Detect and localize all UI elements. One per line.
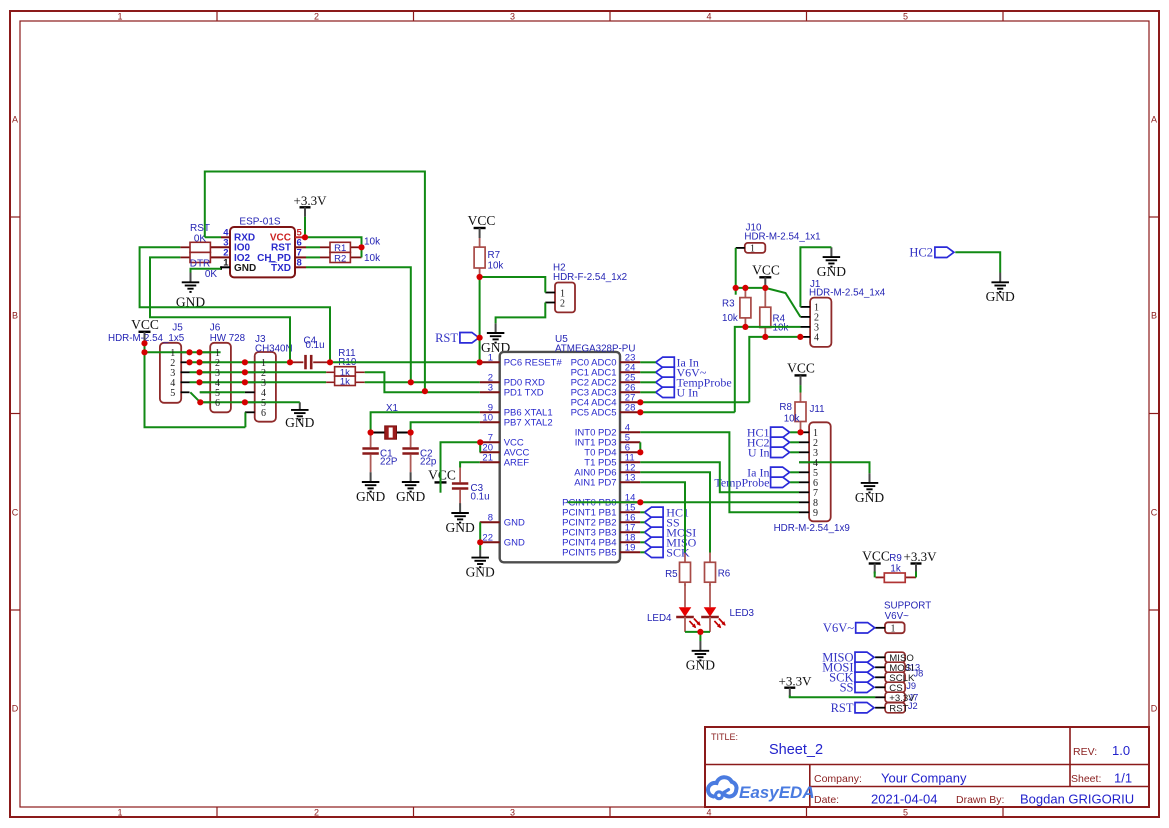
wire J11 flag tap — [790, 471, 799, 473]
net flag HC2 (J11) — [747, 436, 790, 450]
net flag HC2 (top right) — [909, 246, 954, 260]
title block — [705, 727, 1149, 807]
ESP pin 2 stub — [210, 256, 230, 258]
wire R7 to RESET row — [479, 277, 481, 362]
wire HC2 flag to ground — [955, 252, 1000, 272]
+3.3V power flag (SPI) — [779, 673, 813, 697]
wire LED cathodes join — [685, 631, 710, 633]
svg-text:10k: 10k — [488, 260, 504, 271]
svg-text:GND: GND — [285, 415, 314, 430]
svg-text:A: A — [1151, 115, 1157, 125]
svg-text:ESP-01S: ESP-01S — [239, 217, 280, 228]
svg-text:RST: RST — [889, 703, 908, 714]
wire column to J1 pin3 / R3 — [735, 327, 801, 412]
net port HC1 (U5 PB) — [645, 506, 689, 520]
svg-text:22p: 22p — [420, 457, 437, 468]
wire U5 ADC pin to net port — [640, 371, 655, 373]
header H2 HDR-F-2.54_1x2 — [553, 263, 627, 313]
wire row J5.2-J6.2-J3.1 to C4 — [190, 361, 291, 363]
ESP-01S module U? box — [223, 217, 302, 278]
wire ESP RST to R1 — [306, 246, 320, 248]
wire R7 to H2 pin1 — [480, 277, 546, 293]
svg-text:0.1u: 0.1u — [471, 492, 490, 503]
svg-text:REV:: REV: — [1073, 746, 1097, 758]
svg-text:10k: 10k — [364, 253, 381, 264]
J11 pin stubs — [799, 432, 809, 512]
svg-text:D: D — [1151, 704, 1158, 714]
wire row J5.3-J6.3-J3.2 to R11 — [190, 371, 327, 373]
ground (J11 pin4) — [855, 473, 884, 505]
wire J6.6-J3.5 to ground — [200, 401, 299, 403]
svg-text:GND: GND — [855, 490, 884, 505]
header J1 HDR-M-2.54_1x4 — [809, 279, 886, 347]
svg-text:4: 4 — [706, 12, 711, 22]
wire RTS/RST series to RESET net — [140, 247, 330, 362]
svg-text:HW 728: HW 728 — [210, 333, 246, 344]
net port TempProbe (U5 ADC) — [656, 376, 732, 390]
svg-text:1.0: 1.0 — [1112, 743, 1130, 758]
wire row J5.4-J6.4-J3.3 to R10 — [190, 381, 327, 383]
ground (H2 pin2) — [481, 323, 510, 355]
wire VCC to R8 — [800, 385, 802, 392]
svg-text:B: B — [1151, 311, 1157, 321]
wire J11 flag tap — [790, 431, 799, 433]
svg-text:Company:: Company: — [814, 773, 862, 785]
svg-text:GND: GND — [504, 518, 525, 529]
header J11 HDR-M-2.54_1x9 — [774, 404, 850, 534]
resistor R2 10k — [320, 252, 381, 264]
svg-text:6: 6 — [215, 398, 220, 409]
svg-text:TempProbe: TempProbe — [714, 476, 769, 490]
svg-text:R3: R3 — [722, 298, 735, 309]
svg-text:1: 1 — [117, 808, 122, 818]
resistor DTR 0K — [180, 252, 217, 280]
svg-text:SCK: SCK — [666, 546, 690, 560]
header J6 HW 728 — [210, 323, 246, 413]
svg-text:GND: GND — [504, 538, 525, 549]
svg-text:10k: 10k — [364, 237, 381, 248]
capacitor C2 22p body — [402, 433, 418, 473]
wire J1 pin1 to ground — [800, 247, 831, 307]
svg-text:22P: 22P — [380, 457, 398, 468]
wire U5 PB pin to net port — [640, 511, 644, 513]
VCC power flag (R8) — [787, 360, 815, 385]
resistor R3 10k — [740, 288, 751, 327]
H2 pin stubs — [545, 293, 555, 303]
svg-text:Bogdan GRIGORIU: Bogdan GRIGORIU — [1020, 792, 1134, 807]
wire X1 left to U5 XTAL1 — [371, 412, 480, 432]
svg-text:GND: GND — [445, 520, 474, 535]
wire VCC rail down to J3 pin6 — [145, 343, 246, 427]
J1 pin stubs — [800, 307, 810, 337]
net flag SS (SPI) — [840, 681, 874, 695]
header SUPPORT V6V~ (1 pin) — [884, 600, 931, 633]
VCC power flag (R9) — [862, 549, 890, 574]
svg-text:HDR-M-2.54_1x1: HDR-M-2.54_1x1 — [744, 231, 820, 242]
wire J10 to VCC junction — [736, 287, 766, 289]
ground (ESP) — [176, 273, 205, 310]
svg-text:GND: GND — [234, 263, 256, 274]
svg-text:HDR-F-2.54_1x2: HDR-F-2.54_1x2 — [553, 272, 627, 283]
ESP pin 5 stub — [295, 236, 305, 238]
wire U5 PB pin to net port — [640, 531, 644, 533]
svg-text:Sheet_2: Sheet_2 — [769, 742, 823, 758]
svg-text:5: 5 — [170, 388, 175, 399]
wire U5 AREF to C3 — [460, 462, 480, 467]
SPI header pin names — [889, 653, 915, 714]
svg-text:ATMEGA328P-PU: ATMEGA328P-PU — [555, 343, 635, 354]
svg-text:9: 9 — [813, 508, 818, 519]
J12 pin stub — [875, 656, 885, 658]
svg-text:GND: GND — [817, 264, 846, 279]
svg-text:VCC: VCC — [131, 317, 159, 332]
svg-text:Date:: Date: — [814, 794, 839, 806]
ground (J3 pin5) — [285, 402, 314, 430]
resistor R7 10k — [474, 238, 485, 277]
U5 left pin stubs — [480, 362, 500, 542]
svg-text:2021-04-04: 2021-04-04 — [871, 792, 938, 807]
wire column to J1 pin4 / R4 — [749, 337, 800, 402]
ESP pin 3 stub — [210, 246, 230, 248]
capacitor C1 22P body — [362, 433, 378, 473]
VCC power flag (J5) — [131, 317, 159, 342]
svg-text:1k: 1k — [340, 377, 350, 388]
wire U5 AIN1 to R5 — [640, 482, 685, 552]
wire J10 down — [735, 248, 737, 295]
wire J11 flag tap — [790, 441, 799, 443]
svg-text:+3.3V: +3.3V — [889, 693, 915, 704]
resistor RST 0K — [180, 223, 210, 252]
net flag Ia In (J11) — [747, 466, 789, 480]
svg-text:4: 4 — [814, 333, 819, 344]
J9 pin stub — [875, 686, 885, 688]
svg-text:0.1u: 0.1u — [306, 340, 325, 351]
wire U5 INT1 to T0 tie — [639, 442, 641, 452]
wire ESP TXD to U5 RXD net — [306, 267, 411, 382]
header J8 (SCLK) — [885, 672, 905, 682]
svg-text:2: 2 — [560, 298, 565, 309]
svg-text:VCC: VCC — [752, 262, 780, 277]
wire R9 to +3.3V — [915, 572, 917, 578]
J8 pin stub — [875, 676, 885, 678]
resistor R5 — [680, 553, 691, 587]
wire X1 right to U5 XTAL2 — [411, 422, 480, 432]
svg-text:V6V~: V6V~ — [823, 621, 854, 635]
wire J5.5 diagonal to J6.6 — [190, 392, 200, 402]
wire U5 ADC pin to net port — [640, 361, 655, 363]
wire ESP GND pin to ground — [191, 269, 222, 273]
svg-text:Your Company: Your Company — [881, 771, 967, 786]
ground (U5) — [466, 550, 495, 580]
svg-text:5: 5 — [903, 12, 908, 22]
svg-text:A: A — [12, 115, 18, 125]
svg-text:1: 1 — [750, 244, 755, 255]
J6 pin stubs — [200, 352, 210, 402]
svg-text:C: C — [1151, 508, 1158, 518]
svg-text:GND: GND — [986, 289, 1015, 304]
svg-text:1: 1 — [891, 624, 896, 635]
svg-text:R2: R2 — [334, 253, 346, 264]
header J13 (MOSI) — [885, 662, 905, 672]
wire H2 pin2 to ground — [496, 303, 546, 324]
svg-text:0K: 0K — [205, 269, 218, 280]
wire U5 PB pin to net port — [640, 541, 644, 543]
wire +3.3V to ESP VCC and R1/R2 pullups — [305, 217, 362, 258]
wire J3 pin6 drop — [244, 412, 246, 427]
header J9 (CS) — [885, 682, 905, 692]
svg-text:3: 3 — [510, 808, 515, 818]
svg-text:RST: RST — [435, 331, 458, 345]
svg-text:PC5 ADC5: PC5 ADC5 — [571, 408, 617, 419]
svg-text:3: 3 — [510, 12, 515, 22]
resistor R11 1k — [326, 348, 365, 378]
wire U5 VCC to AVCC — [479, 442, 481, 452]
wire U5 AIN0 to R6 — [640, 472, 710, 552]
LED LED3 — [701, 584, 754, 632]
svg-text:+3.3V: +3.3V — [904, 549, 938, 564]
wire U5 PB pin to net port — [640, 521, 644, 523]
svg-text:GND: GND — [356, 489, 385, 504]
svg-text:TITLE:: TITLE: — [711, 732, 738, 742]
J5 pin stubs — [181, 352, 190, 392]
resistor R9 1k (horizontal) — [876, 553, 917, 582]
svg-text:J8: J8 — [914, 668, 924, 678]
ESP pin 7 stub — [295, 256, 306, 258]
svg-text:10k: 10k — [722, 313, 738, 324]
header J2 (RST) — [885, 703, 905, 713]
svg-text:10k: 10k — [773, 323, 789, 334]
svg-text:TXD: TXD — [271, 263, 291, 274]
svg-text:J11: J11 — [810, 404, 825, 415]
wire J6.5 to J3.4 — [200, 391, 245, 393]
svg-text:6: 6 — [261, 408, 266, 419]
svg-text:HDR-M-2.54_1x9: HDR-M-2.54_1x9 — [774, 523, 850, 534]
+3.3V power flag (R9) — [904, 549, 938, 573]
svg-text:GND: GND — [396, 489, 425, 504]
svg-text:V6V~: V6V~ — [885, 611, 910, 622]
wire R10 to U5 PD0 RXD — [365, 381, 480, 383]
header J5 HDR-M-2.54_1x5 — [108, 323, 185, 403]
header J10 HDR-M-2.54_1x1 — [744, 223, 820, 253]
svg-text:1: 1 — [117, 12, 122, 22]
net flag MOSI (SPI) — [822, 661, 874, 675]
svg-text:PC6 RESET#: PC6 RESET# — [504, 358, 563, 369]
net flag RST — [435, 331, 479, 345]
svg-text:10k: 10k — [784, 413, 800, 424]
svg-text:VCC: VCC — [862, 549, 890, 564]
svg-text:VCC: VCC — [787, 360, 815, 375]
net port Ia In (U5 ADC) — [656, 356, 699, 370]
svg-text:EasyEDA: EasyEDA — [739, 783, 815, 802]
net flag TempProbe (J11) — [714, 476, 789, 490]
svg-text:1k: 1k — [890, 563, 900, 574]
wire VCC to R9 — [874, 572, 876, 578]
wire LED join to ground — [699, 632, 701, 641]
ground (C2) — [396, 472, 425, 504]
wire U5 PC5 to J1 pin3 column — [640, 411, 735, 413]
wire R11 to U5 PD1 TXD — [365, 372, 480, 392]
svg-text:R5: R5 — [665, 569, 678, 580]
wire U5 GND pins to ground — [479, 522, 481, 550]
svg-text:PD1 TXD: PD1 TXD — [504, 388, 544, 399]
wire RESET row C4 to U5 pin1 — [330, 361, 480, 363]
wire VCC junction diagonal to J1 pin2 — [765, 288, 800, 317]
svg-text:D: D — [12, 704, 19, 714]
connector pin numbers — [170, 244, 895, 635]
svg-text:LED4: LED4 — [647, 613, 672, 624]
J13 pin stub — [875, 666, 885, 668]
net flag U In (J11) — [748, 446, 790, 460]
net port SS (U5 PB) — [645, 516, 680, 530]
svg-text:SUPPORT: SUPPORT — [884, 600, 931, 611]
wire U5 PB pin to net port — [640, 551, 644, 553]
wire J11 pin4 to ground — [799, 462, 870, 473]
ground (LEDs) — [686, 641, 715, 673]
wire ESP CH_PD to R2 — [306, 256, 320, 258]
net port V6V~ (U5 ADC) — [656, 366, 707, 380]
svg-text:2: 2 — [314, 808, 319, 818]
svg-text:5: 5 — [903, 808, 908, 818]
resistor R1 10k — [320, 237, 381, 255]
J7 pin stub — [875, 696, 885, 698]
svg-text:AREF: AREF — [504, 458, 530, 469]
svg-text:J5: J5 — [172, 323, 183, 334]
svg-text:B: B — [12, 311, 18, 321]
wire U5 VCC to VCC flag — [441, 442, 481, 492]
wire DTR series to C4 — [150, 257, 290, 362]
wire J11 flag tap — [790, 481, 799, 483]
svg-text:R6: R6 — [718, 569, 731, 580]
resistor R10 1k — [326, 357, 365, 388]
svg-text:AIN1 PD7: AIN1 PD7 — [574, 478, 616, 489]
net flag MISO (SPI) — [822, 651, 874, 665]
VCC power flag (R3/R4) — [752, 262, 780, 287]
connector J3 CH340N — [255, 334, 293, 422]
net flag HC1 (J11) — [747, 426, 790, 440]
wire VCC to J5 pin1 / J6 pin1 — [145, 351, 221, 353]
wire U5 INT0 to J11 pin9 — [640, 432, 799, 512]
svg-text:VCC: VCC — [428, 468, 456, 483]
LED LED4 — [647, 584, 701, 632]
net flag SCK (SPI) — [829, 671, 874, 685]
net flag V6V~ — [823, 621, 875, 635]
ESP pin 6 stub — [295, 246, 306, 248]
wire U5 T1 to J11 pin7 — [640, 462, 799, 492]
svg-text:RST: RST — [831, 701, 854, 715]
svg-text:CH340N: CH340N — [255, 343, 293, 354]
svg-text:HC2: HC2 — [909, 246, 933, 260]
SPI header designators — [905, 662, 923, 711]
svg-text:C: C — [12, 508, 19, 518]
svg-text:J6: J6 — [210, 323, 221, 334]
svg-text:PB7 XTAL2: PB7 XTAL2 — [504, 418, 553, 429]
svg-text:PCINT5 PB5: PCINT5 PB5 — [562, 548, 616, 559]
header J12 (MISO) — [885, 652, 905, 662]
J2 pin stub — [875, 707, 885, 709]
J3 pin stubs — [245, 362, 255, 412]
ground (C3) — [445, 503, 474, 535]
ground (HC2 wire) — [986, 273, 1015, 305]
resistor R4 10k — [760, 288, 771, 337]
net flag RST (bottom) — [831, 701, 874, 715]
svg-text:2: 2 — [314, 12, 319, 22]
wire ESP RXD to pin4 — [205, 236, 221, 238]
net port MISO (U5 PB) — [645, 536, 697, 550]
svg-text:RST: RST — [190, 223, 210, 234]
wire RST flag tap — [477, 337, 479, 339]
resistor R8 10k — [795, 392, 806, 432]
ground (J1 pin1) — [817, 247, 846, 279]
svg-text:GND: GND — [466, 565, 495, 580]
ESP pin 8 stub — [295, 266, 306, 268]
net port U In (U5 ADC) — [656, 386, 698, 400]
svg-text:4: 4 — [706, 808, 711, 818]
wire U5 ADC pin to net port — [640, 391, 655, 393]
wire U5 PC4 to J1 pin4 column — [640, 401, 749, 403]
svg-text:+3.3V: +3.3V — [294, 193, 328, 208]
svg-text:Drawn By:: Drawn By: — [956, 794, 1004, 806]
wire U5 ADC pin to net port — [640, 381, 655, 383]
capacitor C3 0.1u body — [452, 468, 468, 504]
MCU U5 ATMEGA328P-PU — [482, 334, 635, 562]
ESP pin 4 stub — [221, 236, 230, 238]
svg-text:1/1: 1/1 — [1114, 771, 1132, 786]
U5 right pin stubs — [620, 362, 640, 552]
svg-text:+3.3V: +3.3V — [779, 673, 813, 688]
ESP pin 1 GND stub — [221, 266, 230, 270]
svg-text:U In: U In — [677, 386, 699, 400]
wire J11 flag tap — [790, 451, 799, 453]
net port SCK (U5 PB) — [645, 546, 690, 560]
svg-text:U In: U In — [748, 446, 770, 460]
wire U5 PCINT0 to J11 pin8 — [568, 501, 800, 503]
svg-text:Sheet:: Sheet: — [1071, 773, 1101, 785]
wire +3.3V to SPI header — [790, 696, 875, 698]
crystal X1 — [371, 403, 411, 439]
svg-text:VCC: VCC — [468, 213, 496, 228]
ground (C1) — [356, 472, 385, 504]
capacitor C4 0.1u — [291, 335, 329, 369]
header J7 (+3.3V) — [885, 692, 905, 702]
svg-text:SS: SS — [840, 681, 854, 695]
VCC power flag (R7) — [468, 213, 496, 238]
VCC power flag (U5 AVCC, inverted) — [428, 468, 456, 493]
J10 pin stub — [736, 247, 745, 249]
net port MOSI (U5 PB) — [645, 526, 697, 540]
svg-text:GND: GND — [686, 658, 715, 673]
svg-text:R8: R8 — [779, 402, 792, 413]
EasyEDA logo — [708, 777, 815, 802]
svg-text:HDR-M-2.54_1x4: HDR-M-2.54_1x4 — [809, 287, 886, 298]
resistor R6 — [705, 553, 716, 587]
svg-text:LED3: LED3 — [730, 608, 755, 619]
wire net D1TX loop (ESP RXD to U5 TXD) — [205, 172, 425, 392]
+3.3V power flag (ESP) — [294, 193, 328, 217]
SUPPORT pin stub — [875, 627, 885, 629]
